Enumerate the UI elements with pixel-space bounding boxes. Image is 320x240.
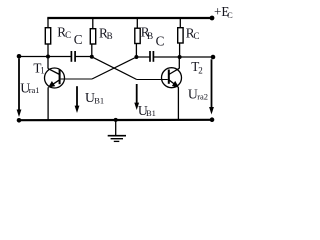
svg-text:C: C bbox=[194, 31, 200, 41]
resistor RB1 (left) bbox=[90, 18, 95, 57]
wire: C1 right plate to RB1 junction bbox=[75, 56, 92, 58]
svg-text:ra1: ra1 bbox=[29, 85, 40, 95]
node: ground rail right dot bbox=[210, 117, 215, 122]
svg-text:C: C bbox=[156, 34, 165, 49]
voltage arrow UB1 (right) bbox=[134, 84, 139, 110]
label T2 bbox=[191, 59, 203, 75]
resistor RB2 (right) bbox=[135, 18, 140, 57]
wire: T2 emitter vertical bbox=[177, 87, 179, 120]
transistor T1 bbox=[45, 68, 65, 88]
label RC2 bbox=[186, 26, 200, 41]
wire: cross-coupling diagonal RB1 to T2 base bbox=[92, 57, 137, 80]
node: left output terminal dot bbox=[17, 54, 22, 59]
svg-text:C: C bbox=[65, 30, 71, 40]
capacitor C2 (right) bbox=[150, 51, 153, 62]
node: RB2 junction dot bbox=[134, 55, 138, 59]
node: ground rail left dot bbox=[17, 118, 22, 123]
wire: left output node horizontal bbox=[19, 56, 71, 58]
wire: T2 collector vertical bbox=[178, 57, 180, 69]
label UB1 left bbox=[85, 90, 104, 105]
wire: RB2 junction to C2 bbox=[136, 56, 150, 58]
node: RC2 junction dot bbox=[178, 55, 182, 59]
wire: C2 to right output node bbox=[153, 56, 213, 58]
svg-text:B: B bbox=[147, 31, 153, 41]
voltage arrow Ura1 bbox=[17, 59, 22, 117]
voltage arrow Ura2 bbox=[209, 59, 214, 114]
label RC1 bbox=[57, 25, 71, 41]
label RB2 bbox=[141, 24, 153, 41]
svg-text:C: C bbox=[227, 10, 233, 20]
label T1 bbox=[33, 60, 44, 75]
voltage arrow UB1 (left) bbox=[75, 86, 80, 113]
label RB1 bbox=[99, 26, 113, 42]
label +EC bbox=[214, 4, 233, 20]
transistor T2 bbox=[162, 68, 182, 88]
label Ura1 bbox=[20, 80, 39, 95]
resistor RC2 (right) bbox=[178, 18, 183, 57]
node: RB1 junction dot bbox=[90, 55, 94, 59]
node: RC1 junction dot bbox=[46, 55, 50, 59]
wire: cross-coupling diagonal RB2 to T1 base bbox=[92, 57, 136, 79]
svg-text:B1: B1 bbox=[146, 108, 156, 118]
node +EC dot bbox=[210, 16, 215, 21]
svg-text:B: B bbox=[107, 31, 113, 41]
ground symbol bbox=[108, 120, 126, 141]
top supply rail bbox=[47, 17, 212, 19]
wire: T1 base horizontal bbox=[61, 78, 92, 80]
svg-text:C: C bbox=[74, 32, 83, 47]
label Ura2 bbox=[188, 87, 208, 102]
label UB1 right bbox=[138, 103, 156, 118]
node: ground symbol junction dot bbox=[114, 118, 118, 122]
node: right output terminal dot bbox=[211, 55, 216, 60]
svg-text:2: 2 bbox=[198, 65, 203, 75]
svg-text:B1: B1 bbox=[94, 96, 104, 106]
wire: T1 emitter vertical bbox=[47, 87, 49, 120]
ground rail bbox=[19, 119, 212, 122]
capacitor C1 (left) bbox=[71, 51, 75, 62]
wire: T1 collector vertical bbox=[47, 44, 49, 69]
resistor RC1 (left) bbox=[45, 18, 50, 44]
svg-text:1: 1 bbox=[40, 66, 45, 76]
svg-text:ra2: ra2 bbox=[197, 91, 208, 101]
wire: T2 base horizontal bbox=[137, 79, 168, 81]
